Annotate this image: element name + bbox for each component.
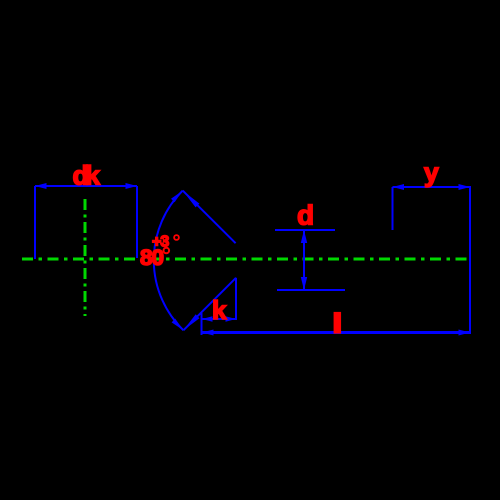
svg-text:d: d <box>297 200 313 231</box>
y dimension line <box>393 186 471 188</box>
label +3deg degree circle <box>174 235 179 240</box>
l left arrow <box>202 330 214 336</box>
upper flank line <box>183 191 236 244</box>
y left arrow <box>393 184 405 190</box>
horizontal centerline <box>22 258 472 261</box>
y right arrow <box>459 184 471 190</box>
vertical centerline <box>84 199 87 316</box>
k right extension line <box>235 278 237 320</box>
svg-text:l: l <box>334 311 340 338</box>
k right arrow <box>226 316 237 322</box>
d arrow down <box>301 277 307 290</box>
arc arrow top <box>171 191 183 203</box>
l left extension line <box>201 313 203 335</box>
dk left arrow <box>35 183 47 189</box>
dk dimension line <box>35 185 137 187</box>
arc arrow bottom <box>172 319 184 331</box>
head arc <box>154 191 184 331</box>
y left extension line <box>392 187 394 230</box>
dk right extension line <box>136 186 138 258</box>
k left arrow <box>202 316 213 322</box>
svg-text:y: y <box>424 158 439 188</box>
l right arrow <box>459 330 471 336</box>
d arrow up <box>301 230 307 243</box>
dk right arrow <box>126 183 138 189</box>
label 80deg degree circle <box>164 248 170 254</box>
dk left extension line <box>34 186 36 259</box>
flank arrow top <box>183 191 200 208</box>
d upper extension line <box>275 229 335 231</box>
svg-text:+3: +3 <box>152 234 169 251</box>
l dimension line <box>202 331 470 334</box>
k dimension line <box>202 318 236 320</box>
flank arrow bottom <box>183 314 199 330</box>
right vertical extension line <box>469 186 471 334</box>
lower flank line <box>183 278 236 331</box>
svg-text:k: k <box>212 295 227 325</box>
d arrow line <box>303 230 305 290</box>
d lower extension line <box>277 289 345 291</box>
